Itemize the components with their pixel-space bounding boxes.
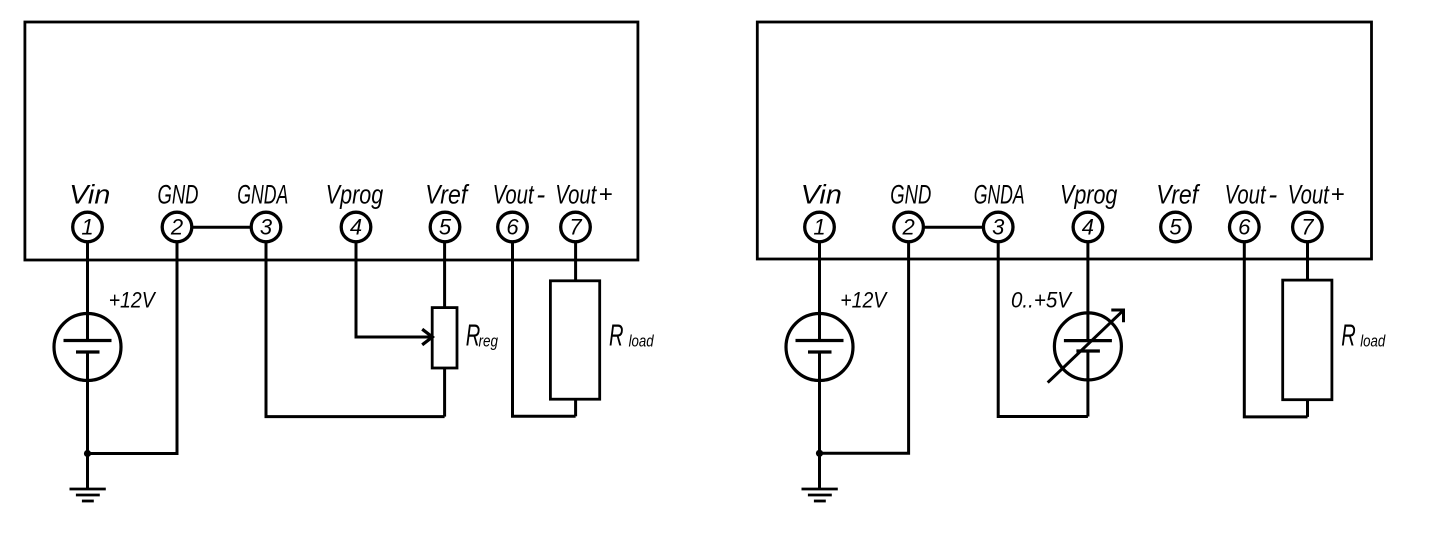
wire junction to ground (right) (818, 453, 821, 489)
svg-text:reg: reg (479, 332, 499, 351)
pin 1 (U1 Vin) (73, 212, 103, 242)
pin label Vout- (U2) (1225, 180, 1278, 210)
wire pin1 to source G2 (818, 241, 821, 341)
module U1 body (left converter) (25, 22, 638, 260)
wire pin2 down (88, 241, 178, 454)
wire pin6 to Rload bottom (left) (513, 241, 576, 416)
svg-text:Vref: Vref (1156, 180, 1200, 210)
pin 4 (U1 Vprog) (341, 212, 371, 242)
value label Rload (left) (609, 318, 654, 353)
pin 5 (U1 Vref) (430, 212, 460, 242)
svg-text:load: load (1360, 332, 1385, 351)
svg-text:-: - (536, 180, 545, 210)
svg-text:R: R (609, 318, 624, 353)
svg-text:0..+5V: 0..+5V (1011, 288, 1073, 313)
source G2 +12V (right) (786, 314, 853, 381)
svg-text:-: - (1268, 180, 1277, 210)
svg-text:6: 6 (1238, 214, 1251, 239)
wire Rload bottom stub (right) (1306, 400, 1309, 417)
pin 7 (U1 Vout+) (561, 212, 591, 242)
pin 2 (U2 GND) (894, 212, 924, 242)
svg-text:1: 1 (813, 214, 825, 239)
pin label Vout+ (U2) (1288, 180, 1345, 210)
wire source G2 to ground junction (818, 352, 821, 453)
svg-text:GND: GND (158, 180, 199, 210)
pin 7 (U2 Vout+) (1293, 212, 1323, 242)
wire pin6 to Rload bottom (right) (1244, 241, 1307, 417)
svg-text:4: 4 (350, 214, 362, 239)
svg-text:3: 3 (260, 214, 273, 239)
wire pin2-pin3 (U1 GND to GNDA strap) (192, 226, 252, 229)
svg-text:+12V: +12V (840, 288, 888, 313)
svg-text:GND: GND (890, 180, 931, 210)
svg-text:load: load (629, 332, 654, 351)
pin 6 (U2 Vout-) (1230, 212, 1260, 242)
value label Rload (right) (1341, 318, 1385, 353)
svg-text:2: 2 (170, 214, 183, 239)
svg-text:2: 2 (901, 214, 914, 239)
pin 5 (U2 Vref) (1161, 212, 1191, 242)
resistor Rload (left) (550, 281, 599, 399)
wire pin2-pin3 (U2 GND to GNDA strap) (923, 226, 984, 229)
svg-text:Vref: Vref (425, 180, 469, 210)
wire source G3 to bottom rail (1086, 351, 1089, 417)
pin 2 (U1 GND) (162, 212, 192, 242)
resistor Rreg (potentiometer body) (432, 308, 457, 368)
resistor Rload (right) (1283, 280, 1332, 400)
svg-text:Vprog: Vprog (326, 180, 383, 210)
module U2 body (right converter) (757, 22, 1371, 259)
svg-text:Vin: Vin (801, 180, 842, 210)
wire pin3 to source G3 bottom (998, 241, 1088, 417)
wire Rreg bottom stub (443, 368, 446, 417)
svg-text:4: 4 (1082, 214, 1094, 239)
svg-text:Vout: Vout (1288, 180, 1330, 210)
source G3 0..+5V (variable) (1054, 313, 1121, 380)
pin 6 (U1 Vout-) (498, 212, 528, 242)
wire pin3 to Rreg bottom (266, 241, 445, 417)
svg-text:Vout: Vout (493, 180, 535, 210)
wire pin2 down (U2) (820, 241, 909, 453)
wire Rload bottom stub (left) (574, 399, 577, 416)
wire pin7 to Rload top (right) (1306, 241, 1309, 280)
svg-text:+12V: +12V (109, 288, 157, 313)
pin label Vout- (U1) (493, 180, 546, 210)
svg-text:GNDA: GNDA (974, 180, 1025, 210)
wire source G1 to ground junction (86, 352, 89, 454)
wiper arrowhead (Rreg) (422, 329, 432, 345)
pin 1 (U2 Vin) (805, 212, 835, 242)
pin 3 (U2 GNDA) (983, 212, 1013, 242)
junction node (left ground net) (84, 450, 91, 457)
ground (left) (70, 489, 106, 501)
source G1 +12V (left) (54, 314, 121, 381)
svg-text:+: + (599, 181, 613, 208)
wire pin4 to Rreg wiper (356, 241, 432, 337)
pin 4 (U2 Vprog) (1073, 212, 1103, 242)
svg-text:3: 3 (992, 214, 1005, 239)
wire pin7 to Rload top (left) (574, 241, 577, 281)
svg-text:7: 7 (569, 214, 582, 239)
wire pin4 to source G3 (1086, 241, 1089, 341)
svg-text:1: 1 (81, 214, 93, 239)
junction node (right ground net) (816, 450, 823, 457)
wire pin5 to Rreg top (443, 241, 446, 308)
ground (right) (802, 489, 838, 501)
svg-text:Vout: Vout (555, 180, 597, 210)
svg-text:5: 5 (439, 214, 452, 239)
svg-text:Vin: Vin (69, 180, 110, 210)
svg-text:GNDA: GNDA (237, 180, 288, 210)
svg-text:5: 5 (1169, 214, 1182, 239)
wire junction to ground (86, 454, 89, 490)
svg-text:6: 6 (506, 214, 519, 239)
value label Rreg (466, 318, 499, 353)
pin label Vout+ (U1) (555, 180, 612, 210)
svg-text:Vprog: Vprog (1060, 180, 1117, 210)
svg-text:Vout: Vout (1225, 180, 1267, 210)
svg-text:+: + (1331, 181, 1345, 208)
wire pin1 to source G1 (86, 241, 89, 341)
variability arrow (G3) (1048, 310, 1124, 383)
pin 3 (U1 GNDA) (251, 212, 281, 242)
svg-text:7: 7 (1301, 214, 1314, 239)
svg-text:R: R (1341, 318, 1356, 353)
